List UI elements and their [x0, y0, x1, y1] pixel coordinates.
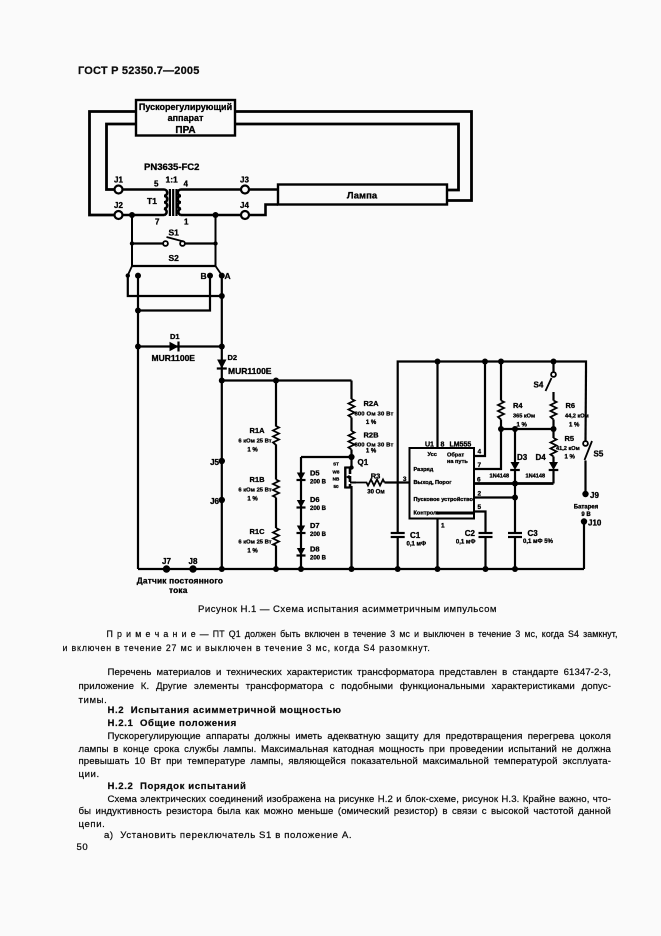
wire: R4/R6 link bar — [501, 428, 554, 430]
resistor R2A — [349, 399, 355, 418]
svg-text:800 Ом 30 Вт: 800 Ом 30 Вт — [354, 412, 393, 418]
svg-text:1: 1 — [441, 523, 445, 530]
wire: R5 to D4 — [552, 457, 554, 463]
wire: left drop to S1/S2 — [131, 215, 133, 266]
wire: D2 branch vertical — [221, 347, 223, 381]
switch S2 left blade — [128, 266, 132, 275]
switch S2 right blade to A — [216, 266, 222, 275]
diode D6 — [297, 500, 306, 508]
resistor R1C — [273, 528, 279, 546]
svg-text:Разряд: Разряд — [414, 467, 434, 473]
wire: bottom rail — [138, 568, 584, 570]
svg-text:200 В: 200 В — [310, 480, 327, 486]
svg-text:0,1 мФ: 0,1 мФ — [407, 542, 427, 548]
svg-text:J4: J4 — [240, 201, 249, 210]
terminal J4 — [241, 211, 249, 219]
svg-text:D7: D7 — [310, 521, 320, 530]
wire: C2 to bottom rail — [484, 537, 486, 569]
wire: ПРА lower-left to J1 — [107, 124, 137, 190]
svg-text:LM555: LM555 — [450, 442, 472, 449]
svg-text:0,1 мФ 5%: 0,1 мФ 5% — [523, 539, 554, 545]
svg-text:50: 50 — [333, 484, 339, 489]
wire: C3 to bottom rail — [514, 537, 516, 569]
svg-text:D5: D5 — [310, 469, 320, 478]
svg-text:200 В: 200 В — [310, 506, 327, 512]
svg-text:3: 3 — [403, 476, 407, 483]
resistor R4 — [498, 401, 504, 420]
U1 internal labels — [414, 452, 474, 517]
svg-text:D4: D4 — [536, 453, 547, 462]
figure caption — [17, 604, 661, 615]
svg-text:1 %: 1 % — [366, 449, 377, 455]
svg-text:9 В: 9 В — [581, 512, 591, 518]
svg-text:Контроль: Контроль — [414, 511, 441, 517]
transistor Q1 (STW8NB50 MOSFET) — [345, 465, 356, 488]
wire: R2A to R2B — [350, 418, 352, 432]
svg-text:ST: ST — [333, 462, 339, 467]
svg-text:5: 5 — [154, 180, 159, 189]
wire: J10 to bottom rail — [583, 524, 585, 570]
svg-text:1N4148: 1N4148 — [490, 474, 510, 480]
svg-text:Порог: Порог — [435, 480, 452, 486]
svg-text:41,2 кОм: 41,2 кОм — [556, 446, 580, 452]
diode D8 — [297, 548, 306, 556]
wire: node B down to crossbar2 — [138, 276, 210, 311]
svg-text:J9: J9 — [590, 491, 599, 500]
page number — [77, 842, 89, 855]
svg-text:S2: S2 — [169, 253, 180, 263]
wire: C1 to bottom rail — [397, 537, 399, 569]
note paragraph — [107, 627, 618, 641]
switch S4 — [546, 362, 556, 401]
wire: D1 row — [138, 345, 222, 347]
wire: T1 secondary bottom to J4 then lamp bottom-left — [181, 214, 241, 217]
wire: U1 pin2 stub — [474, 496, 515, 498]
wire: J5/J6 vertical — [221, 381, 223, 570]
svg-text:B: B — [201, 271, 207, 281]
wire: ПРА lower-right to lamp inner — [235, 124, 459, 190]
resistor R1B — [273, 480, 279, 498]
wire: R2B to Q1 drain node — [350, 450, 352, 468]
wire: U1 pin5 control lead — [436, 512, 474, 515]
node J6 — [219, 497, 225, 503]
schematic SVG goes here — [0, 0, 661, 600]
svg-text:Пусковое устройство: Пусковое устройство — [414, 496, 474, 503]
resistor R5 — [551, 438, 557, 457]
svg-text:8: 8 — [441, 442, 445, 449]
paragraph H.2.2 body — [108, 794, 612, 807]
svg-text:S4: S4 — [534, 381, 544, 390]
wire: left boundary down to bottom rail — [137, 311, 139, 570]
svg-text:Q1: Q1 — [358, 458, 369, 467]
svg-text:Батарея: Батарея — [574, 505, 599, 511]
paragraph: transformer materials — [108, 667, 612, 680]
wire: contact1 down to crossbar1 — [128, 276, 222, 296]
capacitor C2 — [479, 533, 493, 537]
svg-text:аппарат: аппарат — [168, 113, 204, 123]
wire: contact2 down — [137, 276, 139, 311]
svg-text:MUR1100E: MUR1100E — [228, 366, 272, 376]
svg-text:J8: J8 — [189, 557, 198, 566]
svg-text:2: 2 — [478, 491, 482, 498]
svg-text:365 кОм: 365 кОм — [513, 414, 535, 420]
wire: J2 row to T1 primary bottom — [123, 214, 165, 217]
svg-text:200 В: 200 В — [310, 556, 327, 562]
node J7 — [163, 565, 170, 572]
wire: R4 to node — [500, 420, 502, 430]
transformer T1 secondary winding — [178, 190, 181, 215]
svg-text:4: 4 — [184, 180, 189, 189]
svg-text:7: 7 — [478, 462, 482, 469]
wire: rail from D2 to R2A branch — [222, 379, 352, 381]
transformer T1 core — [169, 189, 171, 216]
ballast box ПРА — [136, 100, 235, 136]
heading H.2 — [108, 705, 342, 718]
resistor R1A — [273, 426, 279, 445]
wire: U1 pin8 drop — [436, 362, 438, 449]
wire: ПРА upper-right to lamp outer — [235, 112, 472, 201]
wire: U1 pin1 to bottom rail — [436, 519, 438, 570]
wire: R3 to U1 pin3 — [385, 481, 410, 483]
svg-text:Выход,: Выход, — [414, 480, 435, 486]
svg-text:Усс: Усс — [428, 452, 437, 458]
wire: node to R5 — [552, 429, 554, 438]
svg-text:MUR1100E: MUR1100E — [152, 353, 196, 363]
svg-text:1 %: 1 % — [247, 496, 258, 502]
svg-text:J3: J3 — [240, 176, 249, 185]
switch S1 — [132, 237, 216, 246]
svg-text:R1C: R1C — [249, 527, 265, 536]
svg-text:A: A — [225, 271, 231, 281]
capacitor C3 — [508, 533, 522, 537]
svg-text:S5: S5 — [594, 450, 604, 459]
wire: Q1 source down to bottom rail — [350, 486, 352, 569]
diode D2 — [217, 360, 227, 369]
switch S2 bar — [132, 265, 216, 267]
svg-text:тока: тока — [169, 585, 188, 595]
svg-text:J7: J7 — [162, 557, 171, 566]
svg-text:NB: NB — [333, 477, 340, 482]
wire: ПРА upper-left to J1 loop outer — [90, 112, 137, 216]
svg-text:Обрат: Обрат — [447, 452, 464, 459]
resistor R3 (gate) — [356, 480, 385, 486]
svg-text:R4: R4 — [513, 401, 523, 410]
svg-text:1: 1 — [184, 218, 189, 227]
svg-text:R2A: R2A — [363, 399, 379, 408]
svg-text:1:1: 1:1 — [166, 175, 179, 185]
svg-text:1 %: 1 % — [366, 420, 377, 426]
transformer T1 primary winding — [164, 190, 167, 215]
svg-text:на путь: на путь — [447, 459, 468, 465]
diode D5 — [297, 473, 306, 481]
wire: D3 branch — [514, 429, 516, 462]
resistor R2B — [349, 431, 355, 450]
wire: right node down to D1 row — [221, 296, 223, 347]
diode D3 — [510, 462, 520, 470]
svg-text:J10: J10 — [588, 519, 602, 528]
svg-text:1 %: 1 % — [565, 455, 576, 461]
wire: U1 pin4 stub up to rail — [474, 362, 485, 457]
svg-text:U1: U1 — [425, 442, 434, 449]
svg-text:5: 5 — [478, 504, 482, 511]
svg-text:1N4148: 1N4148 — [526, 474, 546, 480]
list item a) — [104, 830, 352, 843]
svg-text:R3: R3 — [371, 472, 381, 481]
svg-text:D6: D6 — [310, 495, 320, 504]
wire: T1 secondary top to J3 and lamp — [181, 188, 241, 191]
diode D4 — [549, 462, 559, 484]
wire: top rail Vcc — [398, 362, 586, 534]
switch S5 — [583, 370, 592, 492]
wire: node A down joins crossbar1 — [221, 276, 223, 296]
svg-text:6 кОм 25 Вт: 6 кОм 25 Вт — [238, 539, 271, 545]
svg-text:R1B: R1B — [249, 475, 265, 484]
svg-text:200 В: 200 В — [310, 532, 327, 538]
op-amp U1 LM555 box — [410, 448, 475, 519]
junction dots — [129, 212, 135, 218]
svg-text:7: 7 — [155, 218, 160, 227]
running header — [78, 65, 200, 77]
svg-text:C3: C3 — [528, 529, 539, 538]
svg-text:C1: C1 — [410, 531, 421, 540]
resistor chain R1A/R1B/R1C vertical wire — [275, 381, 277, 427]
svg-text:0,1 мФ: 0,1 мФ — [456, 540, 476, 546]
svg-text:6 кОм 25 Вт: 6 кОм 25 Вт — [238, 487, 271, 493]
svg-text:T1: T1 — [147, 196, 157, 206]
wire: R6 to node — [552, 420, 554, 430]
svg-text:D3: D3 — [517, 453, 528, 462]
heading H.2.2 — [108, 781, 247, 794]
svg-text:44,2 кОм: 44,2 кОм — [565, 414, 589, 420]
svg-text:1 %: 1 % — [247, 448, 258, 454]
svg-text:W8: W8 — [333, 470, 340, 475]
svg-text:D2: D2 — [228, 353, 238, 362]
svg-text:J2: J2 — [114, 201, 123, 210]
svg-text:D8: D8 — [310, 545, 320, 554]
terminal J1 — [115, 186, 123, 194]
svg-text:J5: J5 — [210, 458, 219, 467]
terminal J3 — [241, 186, 249, 194]
node J8 — [189, 565, 196, 572]
terminal J2 — [115, 211, 123, 219]
svg-text:Пускорегулирующий: Пускорегулирующий — [139, 102, 232, 112]
svg-text:1 %: 1 % — [247, 548, 258, 554]
svg-text:6 кОм 25 Вт: 6 кОм 25 Вт — [238, 438, 271, 444]
svg-text:J6: J6 — [210, 497, 219, 506]
svg-text:4: 4 — [478, 449, 482, 456]
wire: U1 pin6 line to D3/D4 — [474, 482, 554, 485]
diode D1 — [170, 342, 179, 352]
wire: right drop to S1/S2 — [215, 215, 217, 266]
svg-text:1 %: 1 % — [569, 423, 580, 429]
svg-text:S1: S1 — [169, 228, 180, 238]
wire: zener chain top link — [301, 456, 352, 458]
svg-text:D1: D1 — [170, 332, 180, 341]
node J5 — [219, 458, 225, 464]
svg-text:R6: R6 — [566, 401, 576, 410]
diode D7 — [297, 526, 306, 534]
svg-text:Лампа: Лампа — [347, 191, 378, 202]
heading H.2.1 — [108, 718, 237, 731]
svg-text:ПРА: ПРА — [175, 125, 195, 136]
svg-text:R5: R5 — [565, 434, 575, 443]
wire: J1 to T1 primary top — [123, 188, 165, 191]
wire: R2 branch drop — [350, 381, 352, 400]
wire: R4 branch — [500, 362, 502, 401]
wire: D3 down through pin6/pin2 to C3 — [514, 470, 516, 533]
node J9 — [582, 491, 588, 497]
svg-text:6: 6 — [477, 477, 481, 484]
resistor R6 — [551, 401, 557, 420]
svg-text:C2: C2 — [465, 529, 476, 538]
svg-text:J1: J1 — [114, 176, 123, 185]
lamp box — [278, 185, 447, 205]
wire: U1 pin7 stub up to R4 node — [474, 429, 501, 469]
capacitor C1 — [391, 533, 405, 537]
paragraph H.2.1 body — [108, 731, 612, 744]
svg-text:1 %: 1 % — [517, 423, 528, 429]
svg-text:PN3635-FC2: PN3635-FC2 — [144, 162, 199, 173]
svg-text:30 Ом: 30 Ом — [367, 490, 385, 496]
svg-text:R2B: R2B — [363, 431, 379, 440]
wire: zener chain vertical — [300, 457, 302, 569]
svg-text:R1A: R1A — [249, 426, 265, 435]
node J10 — [581, 518, 587, 524]
